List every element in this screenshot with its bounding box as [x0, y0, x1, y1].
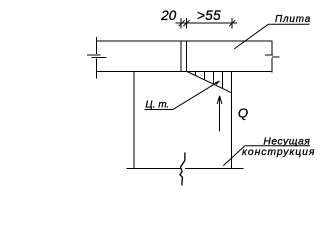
svg-text:Несущая: Несущая	[263, 136, 310, 147]
svg-text:20: 20	[160, 8, 176, 23]
svg-text:конструкция: конструкция	[242, 147, 315, 158]
svg-text:Плита: Плита	[275, 14, 311, 25]
svg-text:Q: Q	[238, 105, 248, 120]
svg-text:>55: >55	[197, 8, 221, 23]
svg-text:Ц. т.: Ц. т.	[145, 99, 169, 110]
